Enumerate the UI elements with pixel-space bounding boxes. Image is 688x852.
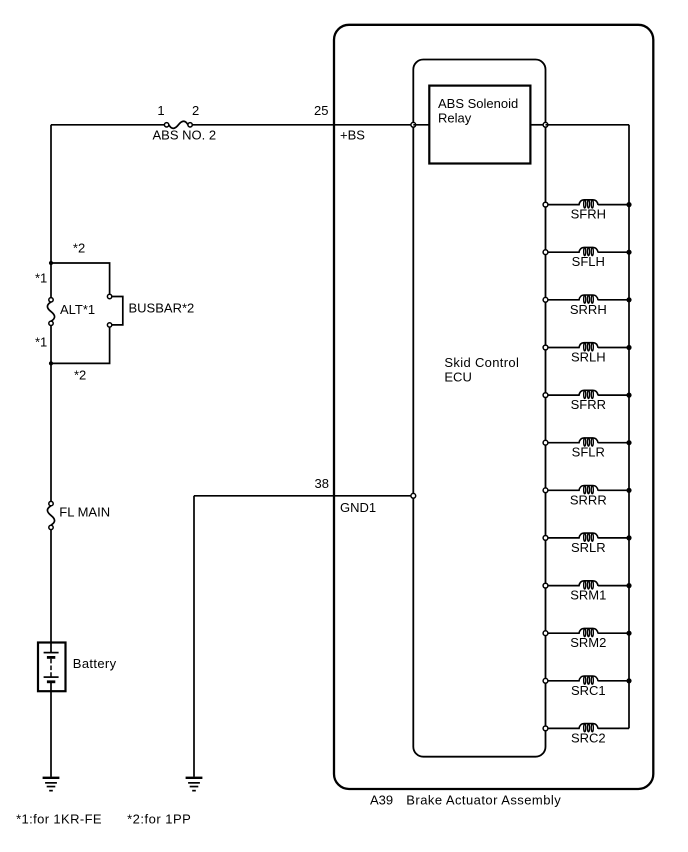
svg-text:2: 2: [192, 103, 199, 118]
node +BS pin 25: [411, 122, 416, 127]
wire +BS into relay: [413, 124, 429, 126]
svg-text:ABS Solenoid: ABS Solenoid: [438, 96, 518, 111]
solenoid SFRR: [543, 390, 632, 398]
svg-text:1: 1: [157, 103, 164, 118]
svg-text:*2:for 1PP: *2:for 1PP: [127, 812, 191, 827]
svg-text:Battery: Battery: [73, 656, 117, 671]
solenoid SRM1: [543, 581, 632, 589]
svg-text:SFLR: SFLR: [572, 445, 605, 460]
svg-text:SFLH: SFLH: [572, 254, 605, 269]
wire GND1 vertical: [193, 496, 195, 777]
svg-text:GND1: GND1: [340, 500, 376, 515]
wire busbar branch bottom: [51, 327, 110, 363]
battery: [38, 643, 66, 692]
svg-text:SRRH: SRRH: [570, 302, 607, 317]
wire solenoid bus (right vertical): [628, 125, 630, 729]
node ALT bottom junction: [49, 361, 53, 365]
svg-text:Skid Control: Skid Control: [444, 355, 519, 370]
svg-text:SRC2: SRC2: [571, 730, 606, 745]
solenoid SFLR: [543, 438, 632, 446]
svg-text:BUSBAR*2: BUSBAR*2: [129, 301, 195, 316]
fuse FL MAIN: [47, 501, 54, 529]
fuse ABS NO. 2: [164, 121, 192, 128]
svg-text:ALT*1: ALT*1: [60, 302, 95, 317]
solenoid SRLH: [543, 343, 632, 351]
svg-text:FL MAIN: FL MAIN: [59, 504, 110, 519]
svg-text:Brake Actuator Assembly: Brake Actuator Assembly: [406, 793, 561, 808]
svg-text:ECU: ECU: [444, 369, 471, 384]
box Skid Control ECU (inner): [413, 60, 545, 757]
svg-text:*1: *1: [35, 335, 47, 350]
svg-text:SFRR: SFRR: [571, 397, 606, 412]
svg-text:38: 38: [315, 476, 329, 491]
fuse ALT: [47, 298, 54, 326]
solenoid SRRH: [543, 295, 632, 303]
svg-text:SRM1: SRM1: [570, 588, 606, 603]
wire battery feed to fuse: [51, 124, 164, 126]
ground (GND1): [186, 777, 203, 792]
svg-text:A39: A39: [370, 793, 393, 808]
svg-text:25: 25: [314, 103, 328, 118]
solenoid SRRR: [543, 486, 632, 494]
solenoid SRC2: [543, 724, 629, 732]
relay ABS Solenoid Relay: [429, 86, 530, 164]
wire main left vertical (FL MAIN to battery): [50, 530, 52, 653]
svg-text:*1: *1: [35, 271, 47, 286]
box A39 Brake Actuator Assembly (outer): [334, 25, 653, 789]
svg-text:*2: *2: [74, 368, 86, 383]
busbar BUSBAR*2: [107, 294, 122, 327]
svg-text:SRLR: SRLR: [571, 540, 606, 555]
wire +BS to solenoid bus: [546, 124, 630, 126]
wire GND1 horizontal: [194, 495, 413, 497]
wire main left vertical (ALT to FL MAIN): [50, 326, 52, 502]
wire main left vertical (top to ALT junction): [50, 125, 52, 298]
svg-text:SFRH: SFRH: [571, 207, 606, 222]
wire fuse to ECU pin 25: [192, 124, 413, 126]
wire battery to ground: [50, 683, 52, 777]
solenoid SRM2: [543, 628, 632, 636]
svg-text:SRM2: SRM2: [570, 635, 606, 650]
svg-text:SRLH: SRLH: [571, 350, 606, 365]
svg-text:+BS: +BS: [340, 128, 365, 143]
svg-text:Relay: Relay: [438, 110, 472, 125]
svg-text:ABS NO. 2: ABS NO. 2: [153, 128, 217, 143]
svg-text:*1:for 1KR-FE: *1:for 1KR-FE: [16, 812, 102, 827]
ground (battery): [43, 777, 60, 792]
solenoid SFLH: [543, 247, 632, 255]
svg-text:*2: *2: [73, 241, 85, 256]
node ECU right edge on +BS line: [543, 122, 548, 127]
svg-text:SRC1: SRC1: [571, 683, 606, 698]
node GND1 pin 38: [411, 493, 416, 498]
wire relay to ECU right edge: [530, 124, 545, 126]
solenoid SFRH: [543, 200, 632, 208]
solenoid SRC1: [543, 676, 632, 684]
node ALT top junction: [49, 261, 53, 265]
svg-text:SRRR: SRRR: [570, 492, 607, 507]
wire busbar branch top: [51, 263, 110, 294]
solenoid SRLR: [543, 533, 632, 541]
